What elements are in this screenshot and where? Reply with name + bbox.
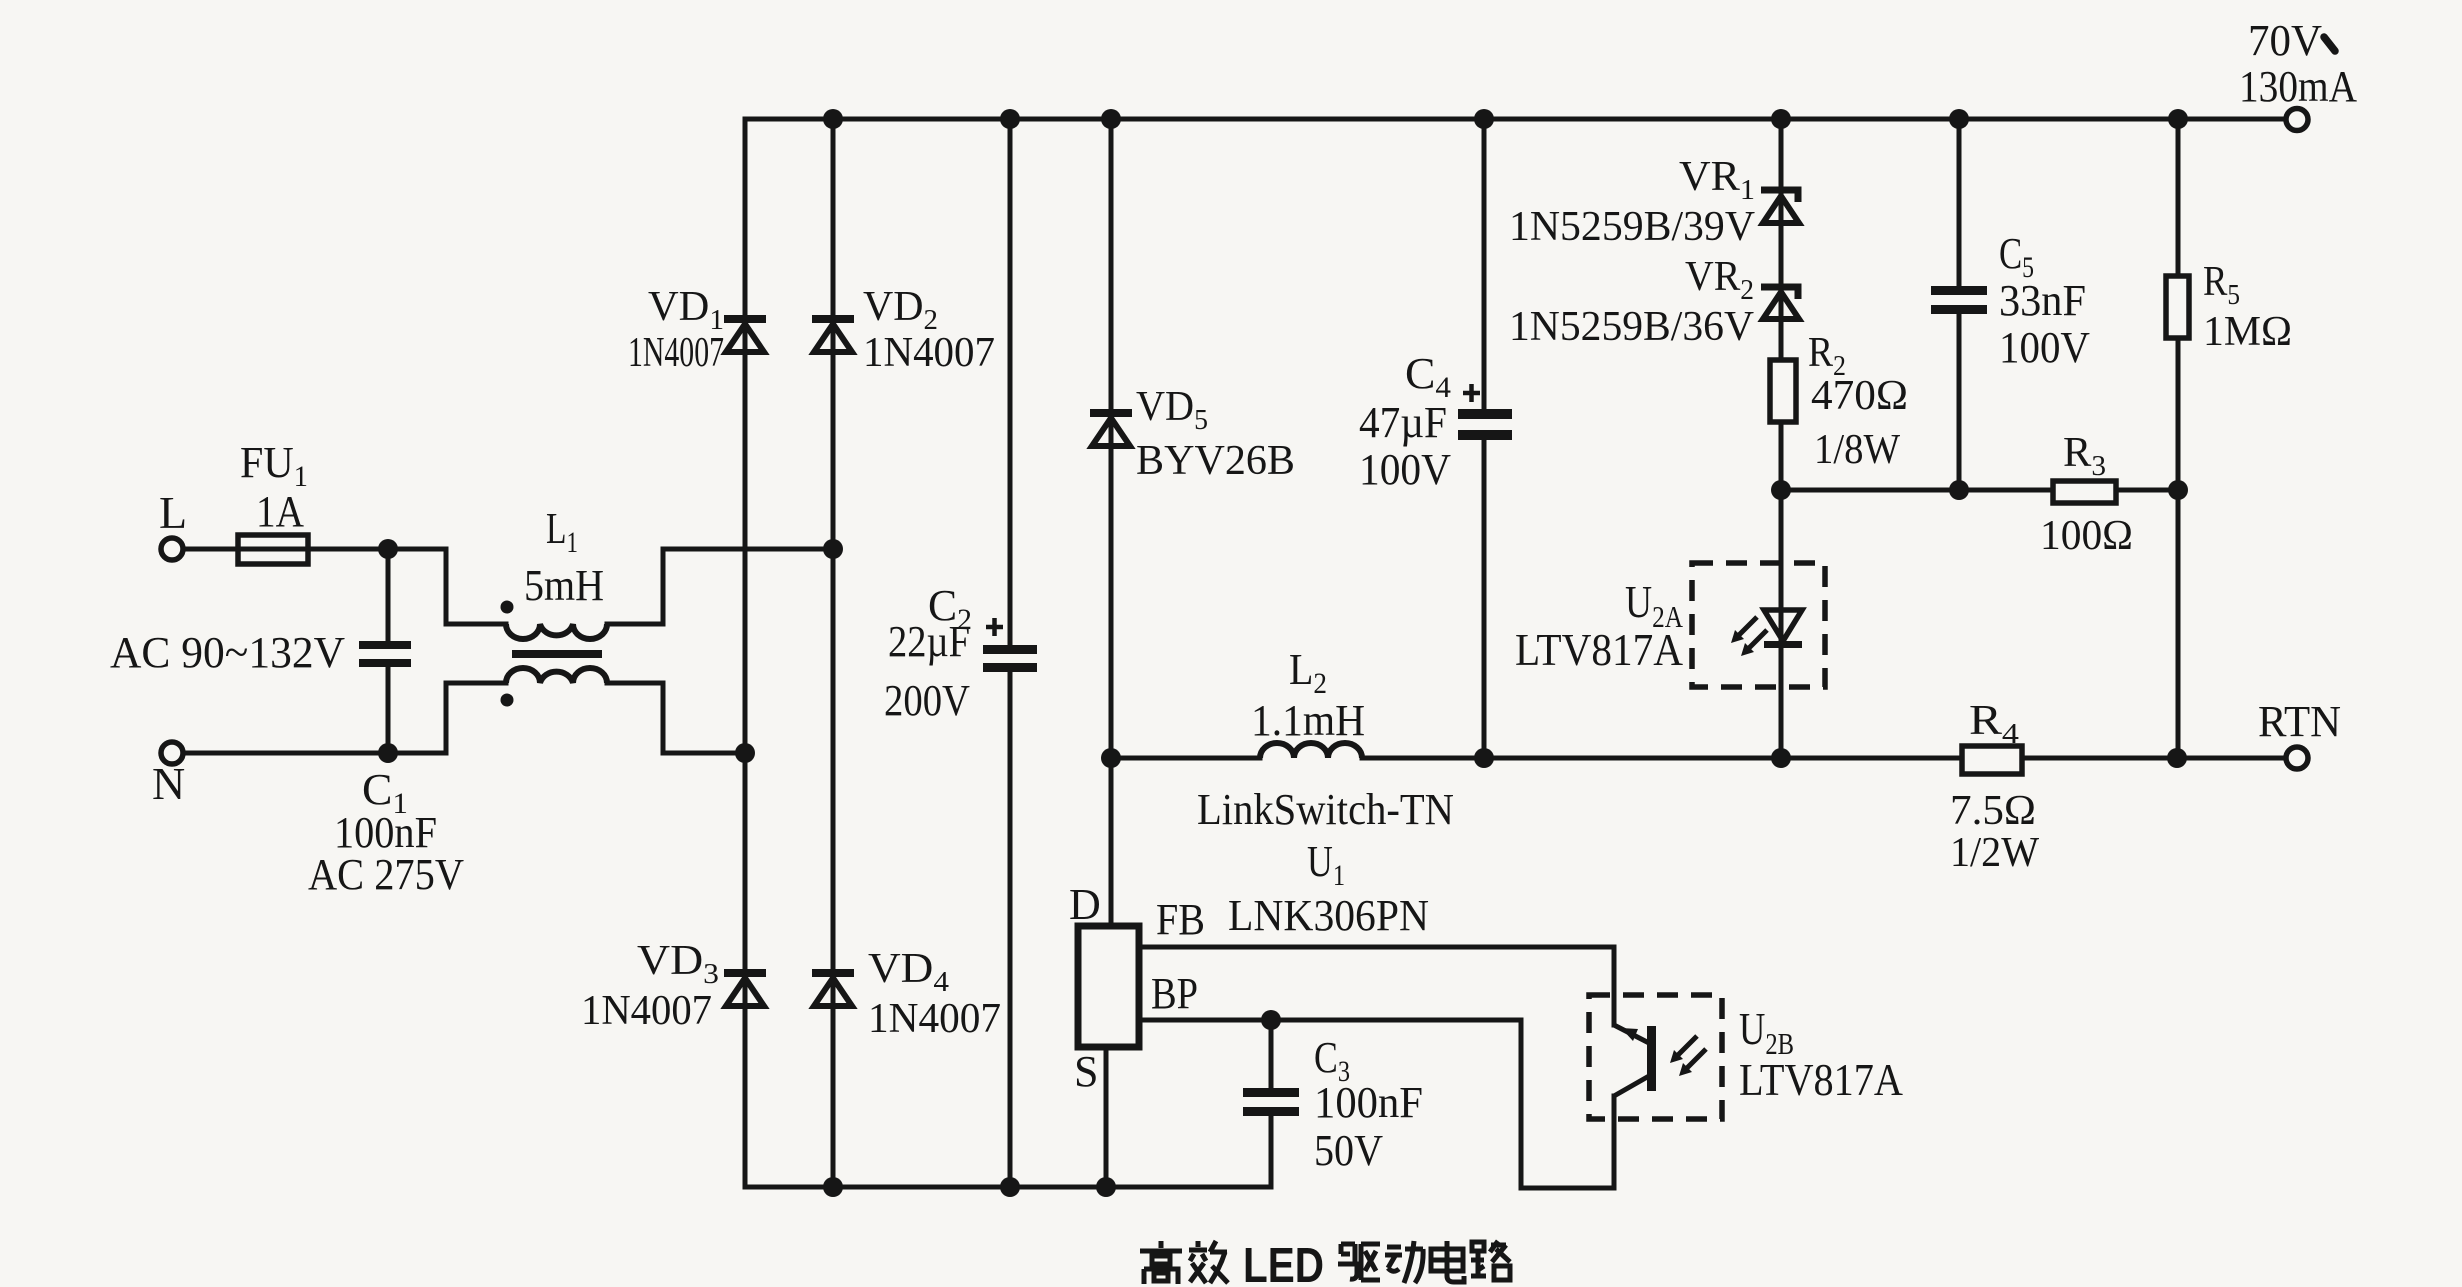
svg-text:AC 90~132V: AC 90~132V (110, 628, 345, 677)
svg-text:1N4007: 1N4007 (863, 330, 995, 376)
zener diode VR1 1N5259B/39V (1509, 154, 1799, 250)
svg-text:LED: LED (1243, 1239, 1324, 1287)
junction R2 bottom node (1771, 480, 1791, 500)
hanzi dian (1431, 1241, 1464, 1282)
junction L input / C1 top (378, 539, 398, 559)
svg-text:1A: 1A (256, 487, 304, 536)
hanzi dong (1385, 1241, 1423, 1283)
wire U1 BP loop to U2B collector (1139, 1020, 1614, 1188)
fuse FU1 1A (238, 438, 308, 564)
svg-text:1N5259B/36V: 1N5259B/36V (1509, 304, 1754, 350)
wire VR1 VR2 R2 U2A branch vertical (1779, 119, 1784, 758)
svg-text:LNK306PN: LNK306PN (1228, 891, 1429, 940)
svg-text:470Ω: 470Ω (1811, 373, 1908, 419)
junction mid rail / U2A bottom (1771, 748, 1791, 768)
wire C2 branch vertical (1008, 119, 1013, 1187)
svg-text:1.1mH: 1.1mH (1251, 696, 1365, 745)
svg-text:FB: FB (1156, 895, 1205, 944)
svg-text:S: S (1074, 1047, 1098, 1096)
wire U1 source to bottom rail (1104, 1047, 1109, 1187)
wire output mid rail to RTN (1111, 756, 2286, 761)
junction L1 out / VD1 line (735, 743, 755, 763)
wire U1 FB to U2B emitter (1139, 947, 1614, 1025)
svg-text:1/2W: 1/2W (1950, 830, 2039, 876)
svg-text:AC 275V: AC 275V (308, 850, 464, 899)
wire VD2 branch vertical (831, 119, 836, 1187)
diode VD3 1N4007 (581, 938, 766, 1034)
junction N input / C1 bottom (378, 743, 398, 763)
junction mid rail / U1 drain (1101, 748, 1121, 768)
terminal RTN (2258, 697, 2341, 769)
junction top rail / VR1 (1771, 109, 1791, 129)
resistor R4 7.5ohm 1/2W (1950, 698, 2039, 876)
svg-text:LinkSwitch-TN: LinkSwitch-TN (1197, 785, 1454, 834)
junction top rail / R5 (2168, 109, 2188, 129)
svg-text:1N4007: 1N4007 (581, 988, 712, 1034)
wire C1 branch vertical (386, 549, 391, 753)
svg-text:1N4007: 1N4007 (628, 330, 724, 376)
svg-text:100nF: 100nF (1314, 1078, 1423, 1127)
svg-text:50V: 50V (1314, 1126, 1383, 1175)
junction top rail / C2 (1000, 109, 1020, 129)
inductor L1 5mH common-mode choke (501, 504, 608, 707)
hanzi xiao (1189, 1241, 1228, 1283)
svg-text:N: N (152, 758, 185, 809)
resistor R3 100ohm (2040, 430, 2133, 559)
diode VD5 BYV26B (1090, 384, 1295, 484)
svg-text:47µF: 47µF (1359, 398, 1447, 447)
svg-text:70V: 70V (2248, 16, 2322, 65)
svg-text:5mH: 5mH (524, 561, 604, 610)
junction bottom rail / U1 source (1096, 1177, 1116, 1197)
resistor R2 470ohm 1/8W (1770, 330, 1908, 473)
hanzi lu (1471, 1241, 1510, 1280)
hanzi gao (1140, 1241, 1182, 1284)
capacitor C3 100nF 50V (1243, 1033, 1423, 1175)
wire C3 branch (1269, 1020, 1274, 1187)
wire R5 branch vertical (2176, 119, 2181, 758)
junction top rail / VD2 (823, 109, 843, 129)
svg-text:22µF: 22µF (888, 617, 970, 666)
wire bottom source rail (745, 1185, 1271, 1190)
diode VD4 1N4007 (812, 946, 1001, 1042)
wire L input from terminal to L1 (183, 549, 506, 624)
junction top rail / VD5 (1101, 109, 1121, 129)
junction bottom rail / C2 (1000, 1177, 1020, 1197)
diode VD2 1N4007 (812, 284, 995, 376)
hanzi qu (1338, 1244, 1380, 1280)
svg-text:1MΩ: 1MΩ (2203, 309, 2292, 355)
svg-text:100Ω: 100Ω (2040, 513, 2133, 559)
wire C4 branch vertical (1482, 119, 1487, 758)
inductor L2 1.1mH (1251, 645, 1365, 758)
optocoupler U2B LTV817A phototransistor (1589, 995, 1903, 1119)
junction mid rail / C4 bottom (1474, 748, 1494, 768)
wire VD1 branch vertical (743, 119, 748, 1187)
junction mid rail / R5 bottom (2167, 748, 2187, 768)
resistor R5 1Mohm (2166, 259, 2292, 355)
junction BP / C3 node (1261, 1010, 1281, 1030)
svg-text:1N4007: 1N4007 (868, 996, 1001, 1042)
junction C5 bottom node (1949, 480, 1969, 500)
junction bottom rail / VD4 (823, 1177, 843, 1197)
optocoupler U2A LTV817A LED (1515, 563, 1825, 687)
junction R3 / R5 node (2168, 480, 2188, 500)
svg-text:LTV817A: LTV817A (1739, 1054, 1903, 1105)
svg-text:200V: 200V (884, 676, 970, 725)
capacitor C4 47uF 100V electrolytic (1359, 349, 1512, 494)
junction top rail / C4 (1474, 109, 1494, 129)
junction L1 out / VD2 line (823, 539, 843, 559)
svg-text:100V: 100V (1999, 323, 2090, 372)
svg-text:BYV26B: BYV26B (1136, 438, 1295, 484)
svg-text:130mA: 130mA (2239, 62, 2357, 111)
terminal N (152, 742, 185, 809)
junction top rail / C5 (1949, 109, 1969, 129)
wire L1 top output to VD2 line (607, 549, 833, 624)
svg-text:1N5259B/39V: 1N5259B/39V (1509, 204, 1755, 250)
svg-text:7.5Ω: 7.5Ω (1950, 788, 2036, 834)
capacitor C2 22uF 200V electrolytic (884, 581, 1037, 725)
zener diode VR2 1N5259B/36V (1509, 254, 1799, 350)
svg-text:33nF: 33nF (1999, 276, 2086, 325)
svg-text:100V: 100V (1359, 445, 1451, 494)
capacitor C1 100nF AC 275V (110, 628, 464, 899)
diode VD1 1N4007 (628, 284, 766, 376)
svg-text:L: L (159, 487, 187, 538)
terminal output 70V 130mA (2239, 16, 2357, 131)
wire top DC rail (745, 117, 2286, 122)
svg-text:RTN: RTN (2258, 697, 2341, 746)
svg-text:D: D (1069, 880, 1101, 929)
wire VD5 / U1 drain vertical (1109, 119, 1114, 926)
svg-text:LTV817A: LTV817A (1515, 624, 1683, 675)
wire L1 bottom output to VD1 line (607, 683, 745, 753)
IC U1 LNK306PN LinkSwitch-TN (1069, 785, 1454, 1096)
capacitor C5 33nF 100V (1931, 229, 2090, 372)
svg-text:1/8W: 1/8W (1814, 427, 1900, 473)
svg-text:BP: BP (1151, 969, 1198, 1018)
caption: 高效 LED 驱动电路 (1140, 1239, 1510, 1287)
terminal L (159, 487, 187, 560)
wire N input from terminal to L1 (183, 683, 506, 753)
wire feedback node R2/R3 row (1781, 488, 2178, 493)
wire C5 branch vertical (1957, 119, 1962, 490)
